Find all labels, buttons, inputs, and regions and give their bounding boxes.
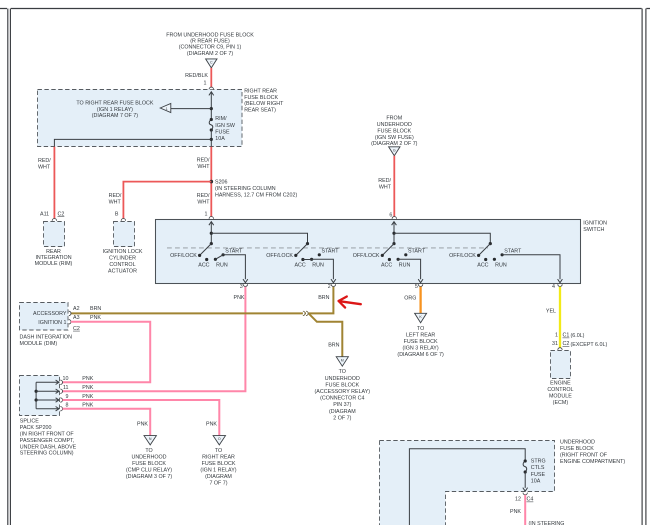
svg-text:WHT: WHT [38,165,51,171]
svg-text:S206: S206 [215,179,228,185]
svg-text:SPLICE: SPLICE [20,419,39,425]
switch section 4 pivot [489,242,492,245]
contact OFF/LOCK section 4 [477,254,480,257]
svg-text:ENGINE: ENGINE [550,380,571,386]
svg-text:A2: A2 [73,306,80,312]
pin cup 12 [523,493,527,495]
pin cup A2 [69,311,71,315]
svg-text:PIN 37): PIN 37) [333,402,351,408]
node: section 1 feed junction [210,232,213,235]
svg-text:RED/: RED/ [109,193,122,199]
svg-text:(DIAGRAM 7 OF 7): (DIAGRAM 7 OF 7) [92,113,139,119]
wire RED/WHT to rear integration module [53,147,55,219]
svg-text:CTLS: CTLS [531,465,545,471]
svg-text:A11: A11 [40,211,49,217]
svg-text:START: START [408,249,426,255]
fuse STRG CTLS 10A [523,461,527,472]
svg-text:RUN: RUN [312,262,324,268]
pin cup 5 (ignition switch bottom) [418,284,422,286]
pin cup ECM [558,348,562,350]
output wire section 2 to pin 2 [303,259,334,279]
svg-text:START: START [225,249,243,255]
output wire section 3 to pin 5 [398,259,421,279]
svg-text:FUSE BLOCK: FUSE BLOCK [560,446,594,452]
wire ORG from pin 5 [419,287,421,314]
connector triangle C (from underhood fuse block) [206,59,217,68]
svg-text:ACC: ACC [381,262,392,268]
switch section 2 pivot [306,242,309,245]
svg-text:3: 3 [240,284,243,290]
svg-text:PNK: PNK [206,421,217,427]
splice bus bar [35,382,37,408]
wire RED/WHT branch to ignition lock [123,182,211,219]
contact START section 2 [318,253,321,256]
svg-text:ACC: ACC [198,262,209,268]
svg-text:C1: C1 [563,333,570,339]
wire PNK splice pin 9 to right rear fuse block connector [63,400,220,436]
svg-text:ENGINE COMPARTMENT): ENGINE COMPARTMENT) [560,459,625,465]
svg-text:OFF/LOCK: OFF/LOCK [170,253,197,259]
svg-text:PNK: PNK [82,394,93,400]
svg-text:RIM/: RIM/ [215,116,227,122]
svg-text:RIGHT REAR: RIGHT REAR [244,89,277,95]
svg-text:WHT: WHT [109,199,122,205]
svg-text:RED/: RED/ [38,158,51,164]
splice pin 8 internal wire [36,408,59,410]
svg-text:FUSE BLOCK: FUSE BLOCK [244,95,278,101]
svg-text:ACC: ACC [477,262,488,268]
pin cup A3 [69,320,71,324]
svg-text:BRN: BRN [318,295,329,301]
contact START section 4 [501,253,504,256]
connector triangle 1 (to right rear fuse block IGN 1 relay) [160,103,171,112]
output wire section 1 to pin 3 [215,255,245,279]
svg-text:6: 6 [389,212,392,218]
splice pin 9 cup [60,398,62,402]
svg-text:TO: TO [339,369,346,375]
node: junction to IGN 1 relay branch [210,107,213,110]
svg-text:ACC: ACC [294,262,305,268]
splice S206 [210,180,214,184]
svg-text:(IN STEERING COLUMN: (IN STEERING COLUMN [215,186,276,192]
svg-text:CYLINDER: CYLINDER [109,256,136,262]
contact RUN section 1 [214,258,217,261]
svg-text:(CONNECTOR C9, PIN 1): (CONNECTOR C9, PIN 1) [179,45,242,51]
svg-text:OFF/LOCK: OFF/LOCK [449,253,476,259]
contact OFF/LOCK section 2 [294,254,297,257]
splice pin 8 cup [60,407,62,411]
connector triangle N (to underhood fuse block CMP CLU relay) [144,436,156,445]
page frame left inner line [9,9,11,525]
svg-text:MODULE (RIM): MODULE (RIM) [35,261,73,267]
svg-text:2: 2 [328,284,331,290]
ignition lock cylinder control actuator box [114,222,135,247]
svg-text:(DIAGRAM 2 OF 7): (DIAGRAM 2 OF 7) [371,141,418,147]
svg-text:(IGN 3 RELAY): (IGN 3 RELAY) [403,346,439,352]
svg-text:(IGN SW FUSE): (IGN SW FUSE) [375,135,414,141]
svg-text:(CMP CLU RELAY): (CMP CLU RELAY) [126,467,172,473]
svg-text:(BELOW RIGHT: (BELOW RIGHT [244,101,284,107]
svg-text:31: 31 [552,341,558,347]
svg-text:(ECM): (ECM) [553,400,569,406]
switch arm section 4 [479,244,491,256]
svg-text:FUSE BLOCK: FUSE BLOCK [132,461,166,467]
svg-text:IGN SW: IGN SW [215,123,236,129]
connector triangle O (to right rear fuse block IGN 1 relay) [213,436,225,445]
svg-text:FROM: FROM [386,116,402,122]
svg-text:SWITCH: SWITCH [583,227,604,233]
svg-text:(6.0L): (6.0L) [571,333,585,339]
svg-text:PNK: PNK [82,403,93,409]
svg-text:(EXCEPT 6.0L): (EXCEPT 6.0L) [571,342,608,348]
wire YEL from pin 4 to ECM [559,287,561,348]
svg-text:5: 5 [415,284,418,290]
connector triangle K (to left rear fuse block) [415,313,427,323]
splice bus node 11 [35,390,38,393]
svg-text:WHT: WHT [197,164,210,170]
ignition switch box [156,220,581,284]
svg-text:ACTUATOR: ACTUATOR [108,268,137,274]
contact ACC section 4 [484,258,487,261]
svg-text:A3: A3 [73,315,80,321]
svg-text:PNK: PNK [82,385,93,391]
wire PNK splice pin 8 to underhood fuse block connector [63,409,151,436]
svg-text:1: 1 [204,80,207,86]
svg-text:TO: TO [145,448,152,454]
page frame top border [0,8,650,10]
engine control module box [551,351,571,379]
switch arm section 1 [200,244,212,256]
svg-text:8: 8 [66,403,69,409]
rear integration module box [44,222,65,247]
svg-text:G: G [393,148,396,152]
contact ACC section 2 [301,258,304,261]
svg-text:FUSE: FUSE [531,472,546,478]
exit arrow pin 5 [418,279,423,283]
svg-text:(ACCESSORY RELAY): (ACCESSORY RELAY) [315,389,371,395]
svg-text:FUSE BLOCK: FUSE BLOCK [202,461,236,467]
svg-text:ORG: ORG [404,295,416,301]
contact RUN section 4 [493,258,496,261]
svg-text:BRN: BRN [328,343,339,349]
exit arrow pin 2 [331,279,336,283]
contact START section 3 [404,253,407,256]
svg-text:1: 1 [555,333,558,339]
svg-text:UNDERHOOD: UNDERHOOD [377,122,412,128]
svg-text:TO RIGHT REAR FUSE BLOCK: TO RIGHT REAR FUSE BLOCK [76,101,153,107]
svg-text:RUN: RUN [495,262,507,268]
svg-text:2 OF 7): 2 OF 7) [333,415,351,421]
svg-text:WHT: WHT [379,184,392,190]
switch arm section 3 [382,244,394,256]
wire PNK from pin 3 to splice pack pin 11 [63,287,246,392]
svg-text:FUSE BLOCK: FUSE BLOCK [377,128,411,134]
svg-text:12: 12 [515,497,521,503]
pin cup 2 (ignition switch bottom) [331,284,335,286]
mechanical linkage dashed line [167,247,488,249]
splice pin 8 arrow [56,407,59,411]
svg-text:PNK: PNK [234,295,245,301]
svg-text:ACCESSORY: ACCESSORY [33,311,67,317]
node: section 3 feed junction [392,232,395,235]
svg-text:PNK: PNK [82,376,93,382]
splice bus node 9 [35,398,38,401]
svg-text:PNK: PNK [137,421,148,427]
output wire section 4 to pin 4 [502,255,560,279]
pin cup B [121,219,125,221]
wire: fuse output to pin 12 [524,472,526,488]
pin cup 1 (right rear fuse block) [209,87,213,89]
svg-text:UNDERHOOD: UNDERHOOD [325,376,360,382]
contact ACC section 3 [388,258,391,261]
pin cup 1 (ignition switch) [209,217,213,219]
crossover arcs on BRN wire [303,311,305,315]
svg-text:PNK: PNK [90,315,101,321]
svg-text:OFF/LOCK: OFF/LOCK [266,253,293,259]
connector triangle G (from underhood fuse block) [389,147,400,156]
contact RUN section 2 [310,258,313,261]
wire link to section 2 [211,233,307,243]
svg-text:RED/: RED/ [197,158,210,164]
svg-text:START: START [504,249,522,255]
svg-text:UNDERHOOD: UNDERHOOD [131,454,166,460]
wire BRN from pin 2 [309,287,334,314]
svg-text:TO: TO [215,448,222,454]
svg-text:FUSE BLOCK: FUSE BLOCK [325,382,359,388]
wire RED/BLK [210,68,212,87]
svg-text:FUSE: FUSE [215,129,230,135]
svg-text:(DIAGRAM 6 OF 7): (DIAGRAM 6 OF 7) [397,352,444,358]
svg-text:IGNITION LOCK: IGNITION LOCK [103,249,143,255]
svg-text:RIGHT REAR: RIGHT REAR [202,454,235,460]
svg-text:IGNITION: IGNITION [583,220,607,226]
svg-text:10A: 10A [531,479,541,485]
svg-text:(RIGHT FRONT OF: (RIGHT FRONT OF [560,452,608,458]
svg-text:C2: C2 [58,211,65,217]
svg-text:(R REAR FUSE): (R REAR FUSE) [190,39,230,45]
svg-text:(DIAGRAM: (DIAGRAM [329,409,356,415]
pin cup 3 (ignition switch bottom) [243,284,247,286]
svg-text:(CONNECTOR C4: (CONNECTOR C4 [320,396,364,402]
connector triangle M (to underhood fuse block accessory relay) [336,357,348,367]
svg-text:YEL: YEL [546,309,556,315]
svg-text:(IGN 1 RELAY): (IGN 1 RELAY) [200,467,236,473]
svg-text:WHT: WHT [197,199,210,205]
svg-text:C2: C2 [73,326,80,332]
splice pin 10 internal wire [36,381,59,383]
exit arrow pin 12 [523,488,528,492]
contact OFF/LOCK section 1 [198,254,201,257]
svg-text:STRG: STRG [531,458,546,464]
svg-text:1: 1 [205,211,208,217]
wire: horizontal to left exit [54,139,211,146]
switch section 1 pole [209,222,214,226]
svg-text:(DIAGRAM: (DIAGRAM [205,474,232,480]
svg-text:UNDER DASH, ABOVE: UNDER DASH, ABOVE [20,444,77,450]
svg-text:PASSENGER COMPT,: PASSENGER COMPT, [20,438,75,444]
exit arrow pin 4 [558,279,563,283]
svg-text:11: 11 [63,385,69,391]
svg-text:CONTROL: CONTROL [547,387,573,393]
wire to IGN 1 relay connector [171,108,212,110]
annotation red arrow [339,297,361,308]
contact OFF/LOCK section 3 [381,254,384,257]
splice pin 9 internal wire [36,399,59,401]
svg-text:RUN: RUN [216,262,228,268]
svg-text:LEFT REAR: LEFT REAR [406,333,435,339]
svg-text:10A: 10A [215,136,225,142]
svg-text:STEERING COLUMN): STEERING COLUMN) [20,451,74,457]
wire: fuse output [210,130,212,147]
pin cup 6 (ignition switch) [392,217,396,219]
svg-text:7 OF 7): 7 OF 7) [209,480,227,486]
svg-text:RUN: RUN [399,262,411,268]
exit arrow pin 3 [243,279,248,283]
svg-text:PNK: PNK [510,509,521,515]
wire: vertical bus inside right rear fuse block [210,92,212,119]
svg-text:O: O [218,437,221,441]
pin cup 4 (ignition switch bottom) [558,284,562,286]
svg-text:BRN: BRN [90,306,101,312]
svg-text:UNDERHOOD: UNDERHOOD [560,439,595,445]
svg-text:(DIAGRAM 3 OF 7): (DIAGRAM 3 OF 7) [126,474,173,480]
splice pin 10 cup [60,380,62,384]
splice pack SP200 box [20,376,60,416]
underhood fuse block box [380,441,555,525]
fuse RIM/IGN SW 10A [209,120,213,131]
svg-text:MODULE: MODULE [549,393,572,399]
wire BRN from DIM A2 [71,312,309,314]
switch arm section 2 [296,244,308,256]
splice pin 11 internal wire [36,390,59,392]
svg-text:HARNESS, 12.7 CM FROM C202): HARNESS, 12.7 CM FROM C202) [215,193,297,199]
svg-text:4: 4 [552,284,555,290]
pin cup A11 [52,219,56,221]
svg-text:N: N [149,437,152,441]
svg-text:OFF/LOCK: OFF/LOCK [353,253,380,259]
svg-text:IGNITION 1: IGNITION 1 [38,320,66,326]
svg-text:FROM UNDERHOOD FUSE BLOCK: FROM UNDERHOOD FUSE BLOCK [166,32,254,38]
svg-text:REAR SEAT): REAR SEAT) [244,107,276,113]
svg-text:C4: C4 [527,497,534,503]
svg-text:RED/: RED/ [197,193,210,199]
dash integration module box [20,303,69,331]
wire RED/WHT from underhood fuse block [393,156,395,217]
page frame right inner line [641,9,643,525]
contact START section 1 [222,253,225,256]
svg-text:START: START [321,249,339,255]
wire BRN jog to accessory relay connector [309,313,343,356]
splice pin 10 arrow [56,380,59,384]
svg-text:TO: TO [417,326,424,332]
wire RED/WHT from fuse to ignition switch pin 1 [210,147,212,217]
svg-text:C: C [210,61,213,65]
svg-text:B: B [115,211,119,217]
page frame right outer line [645,9,647,525]
svg-text:1: 1 [166,107,168,111]
splice pin 9 arrow [56,398,59,402]
switch section 1 pivot [210,242,213,245]
svg-text:DASH INTEGRATION: DASH INTEGRATION [20,335,73,341]
switch section 3 pivot [392,242,395,245]
svg-text:(DIAGRAM 2 OF 7): (DIAGRAM 2 OF 7) [187,51,234,57]
wire PNK from DIM A3 to splice pack pin 10 [63,322,151,383]
right rear fuse block (dashed box) [38,90,243,147]
svg-text:FUSE BLOCK: FUSE BLOCK [404,339,438,345]
svg-text:CONTROL: CONTROL [109,262,135,268]
contact RUN section 3 [397,258,400,261]
svg-text:10: 10 [63,376,69,382]
page frame left outer line [7,9,9,525]
svg-text:(IN STEERING: (IN STEERING [529,521,565,525]
wire: internal bus to STRG CTLS fuse [409,449,525,525]
splice pin 11 arrow [56,389,59,393]
contact ACC section 1 [205,258,208,261]
svg-text:M: M [341,358,344,362]
entry arrow pin 1 [209,92,214,96]
svg-text:PACK SP200: PACK SP200 [20,425,52,431]
svg-text:9: 9 [66,394,69,400]
svg-text:RED/: RED/ [378,178,391,184]
svg-text:C2: C2 [563,341,570,347]
wire PNK from pin 12 [524,495,526,525]
svg-text:(IN RIGHT FRONT OF: (IN RIGHT FRONT OF [20,432,75,438]
node: junction at fuse output [210,138,213,141]
switch section 3 pole [392,222,397,226]
splice pin 11 cup [60,389,62,393]
svg-text:MODULE (DIM): MODULE (DIM) [20,341,58,347]
svg-text:(IGN 1 RELAY): (IGN 1 RELAY) [97,107,133,113]
wire link to section 4 [394,233,490,243]
svg-text:RED/BLK: RED/BLK [185,73,208,79]
